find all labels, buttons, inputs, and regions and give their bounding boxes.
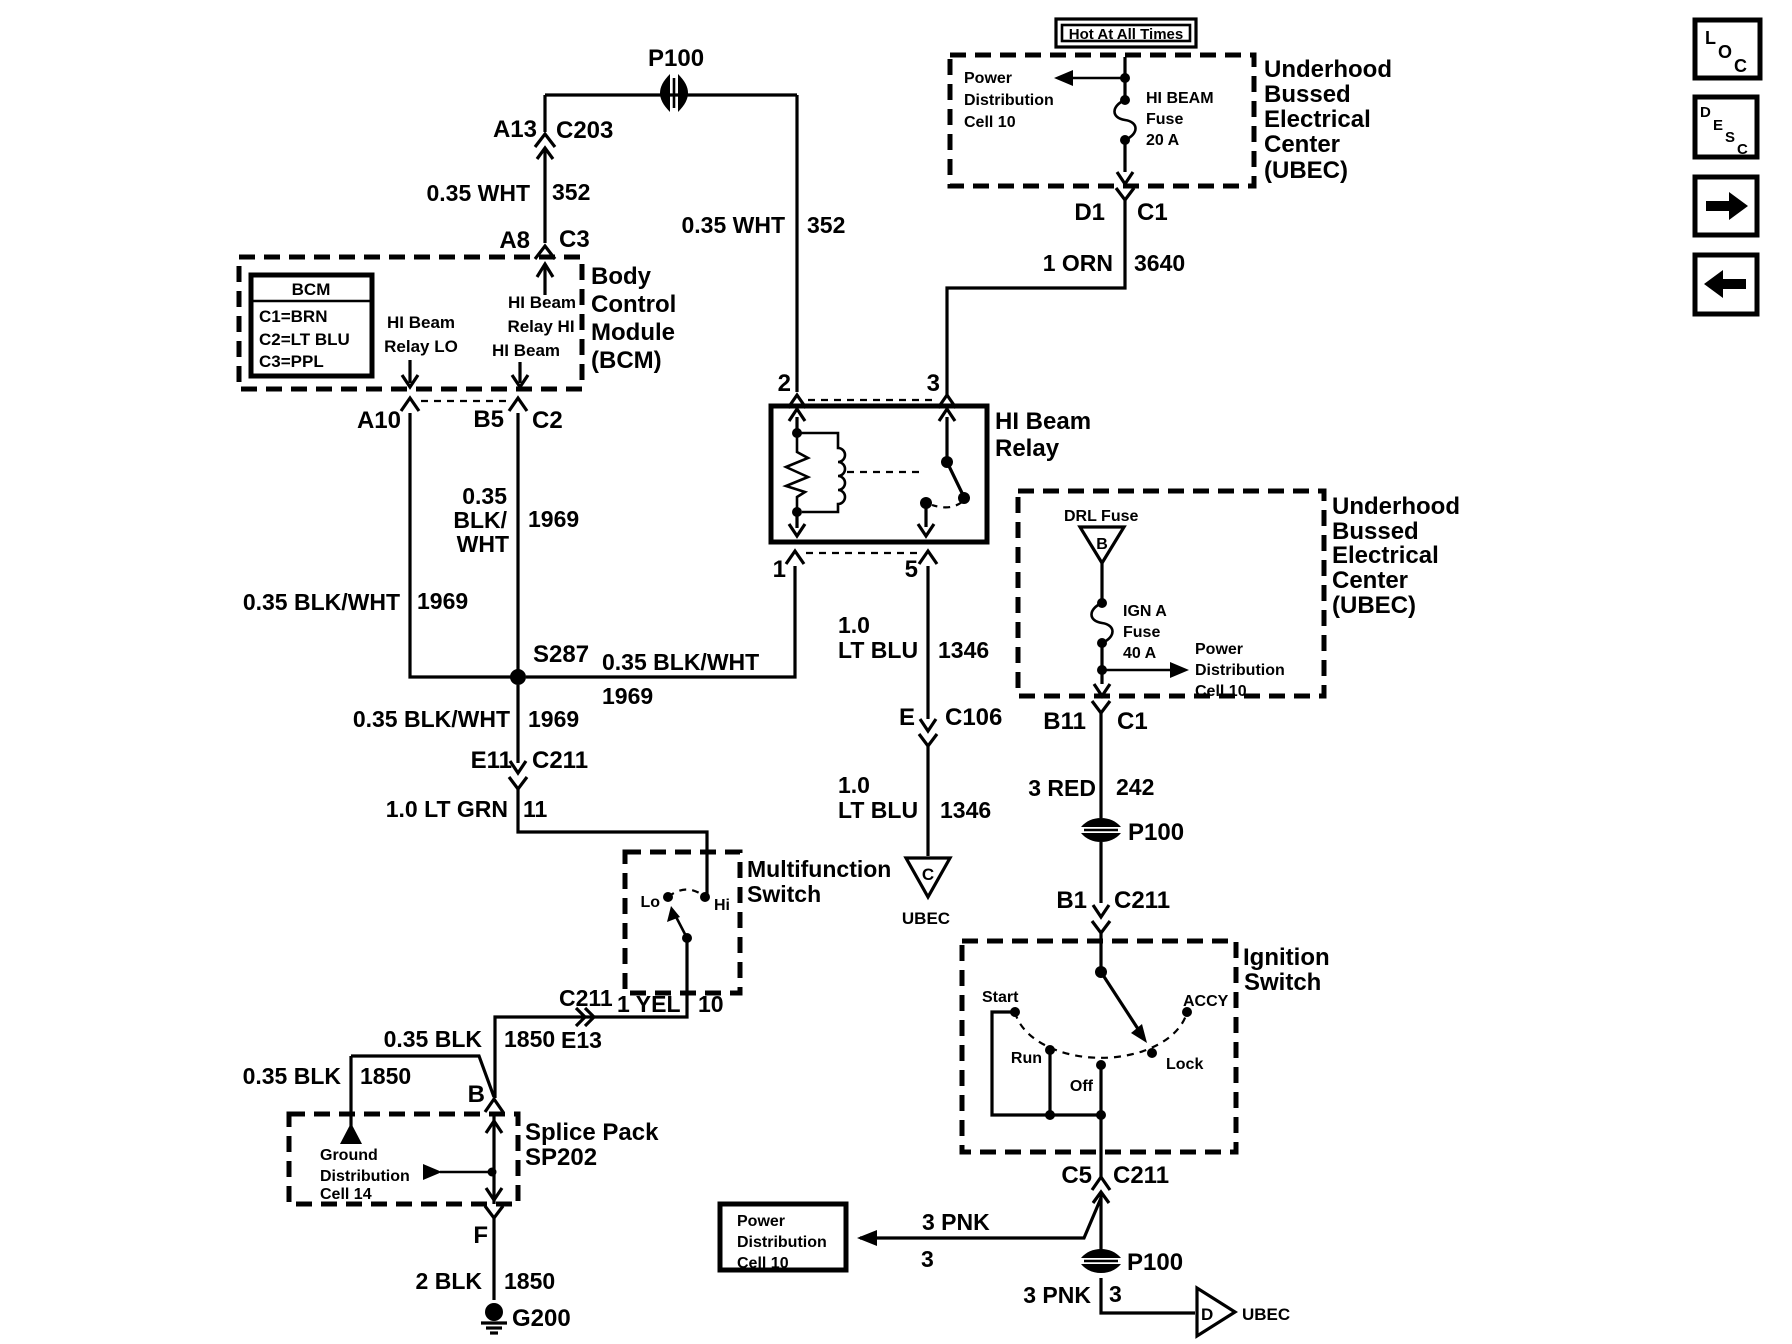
svg-text:Underhood: Underhood	[1332, 493, 1460, 520]
svg-text:Power: Power	[737, 1213, 785, 1230]
label HI Beam Relay LO	[384, 313, 458, 356]
relay coil branch bottom node	[792, 507, 802, 517]
svg-text:11: 11	[523, 796, 548, 822]
svg-text:Underhood: Underhood	[1264, 56, 1392, 83]
svg-text:P100: P100	[1128, 819, 1184, 846]
label DRL Fuse	[1064, 508, 1138, 525]
arrow down exiting splice pack	[486, 1188, 502, 1200]
label Ground Distribution Cell 14	[320, 1147, 410, 1203]
wire ignition output	[1099, 1115, 1102, 1177]
wire 3 PNK 3 to UBEC	[1023, 1278, 1195, 1313]
svg-text:Fuse: Fuse	[1146, 111, 1183, 128]
Splice Pack SP202 dashed outline	[289, 1114, 518, 1204]
arrow to power distribution cell 10 (lower UBEC)	[1102, 662, 1189, 678]
svg-text:3: 3	[927, 370, 940, 397]
svg-text:Cell 10: Cell 10	[737, 1255, 789, 1272]
svg-text:LT BLU: LT BLU	[838, 637, 918, 663]
off-page reference triangle C to UBEC	[902, 858, 950, 928]
svg-text:10: 10	[698, 991, 724, 1017]
ground distribution feed triangle	[340, 1123, 362, 1144]
svg-text:Electrical: Electrical	[1264, 106, 1371, 133]
svg-text:Splice Pack: Splice Pack	[525, 1119, 659, 1146]
Multifunction Switch dashed outline	[625, 852, 740, 993]
svg-text:E13: E13	[561, 1027, 602, 1053]
wire top rail from C203 to HI Beam Relay pin 2	[545, 93, 797, 96]
svg-text:A10: A10	[357, 407, 401, 434]
svg-text:Module: Module	[591, 319, 675, 346]
svg-text:C203: C203	[556, 117, 613, 144]
Power Distribution Cell 10 box	[720, 1204, 846, 1272]
svg-text:UBEC: UBEC	[902, 909, 950, 928]
UBEC lower dashed outline	[1018, 491, 1324, 696]
wire Run to output bus	[1045, 1050, 1055, 1120]
svg-text:0.35 BLK: 0.35 BLK	[243, 1063, 342, 1089]
svg-text:242: 242	[1116, 774, 1154, 800]
svg-text:Body: Body	[591, 263, 652, 290]
svg-text:WHT: WHT	[457, 531, 509, 557]
connector pin B of splice pack	[468, 1081, 503, 1112]
svg-text:E: E	[1713, 117, 1723, 134]
HI Beam Relay box	[771, 406, 987, 542]
svg-text:Control: Control	[591, 291, 676, 318]
wire S287 to relay pin 1, 0.35 BLK/WHT 1969	[526, 566, 795, 709]
wire 1 ORN 3640 to relay pin 3	[947, 200, 1185, 395]
svg-text:Electrical: Electrical	[1332, 542, 1439, 569]
contact Hi	[700, 892, 730, 914]
svg-text:Power: Power	[1195, 641, 1243, 658]
svg-text:3 RED: 3 RED	[1028, 775, 1096, 801]
svg-text:2 BLK: 2 BLK	[416, 1268, 483, 1294]
svg-text:0.35 BLK: 0.35 BLK	[384, 1026, 483, 1052]
connector P100 (inline pass-through, top)	[648, 45, 704, 112]
svg-text:B: B	[1096, 536, 1108, 553]
arrow into BCM pin A8	[537, 264, 553, 295]
svg-text:LT BLU: LT BLU	[838, 797, 918, 823]
label Underhood Bussed Electrical Center (UBEC) upper	[1264, 56, 1392, 184]
svg-text:Switch: Switch	[747, 881, 821, 907]
svg-text:3640: 3640	[1134, 250, 1185, 276]
svg-text:Cell 10: Cell 10	[964, 114, 1016, 131]
svg-text:L: L	[1705, 28, 1716, 48]
label HI Beam Relay	[995, 408, 1091, 462]
label Underhood Bussed Electrical Center (UBEC) lower	[1332, 493, 1460, 619]
svg-text:Center: Center	[1332, 567, 1408, 594]
svg-text:C211: C211	[1113, 1162, 1169, 1189]
ignition switch pivot and blade	[1095, 966, 1147, 1043]
svg-text:E: E	[899, 704, 915, 731]
relay coil branch arrow up	[789, 409, 805, 430]
svg-text:Distribution: Distribution	[1195, 662, 1285, 679]
svg-text:C: C	[922, 865, 934, 884]
next page arrow box	[1695, 177, 1757, 235]
svg-text:C2=LT BLU: C2=LT BLU	[259, 330, 350, 349]
wire S287 down 0.35 BLK/WHT 1969	[353, 685, 579, 757]
svg-text:Distribution: Distribution	[964, 92, 1054, 109]
svg-text:(UBEC): (UBEC)	[1332, 592, 1416, 619]
svg-text:C: C	[1734, 56, 1747, 76]
dashed throw arc Lo-Hi	[668, 890, 705, 898]
svg-text:5: 5	[905, 556, 918, 583]
wire C5 to P100	[1099, 1194, 1102, 1250]
svg-text:B11: B11	[1043, 708, 1086, 735]
svg-text:D: D	[1700, 104, 1711, 121]
svg-text:Off: Off	[1070, 1078, 1094, 1095]
svg-text:Center: Center	[1264, 131, 1340, 158]
svg-text:Relay HI: Relay HI	[507, 317, 574, 336]
Ignition Switch dashed outline	[962, 941, 1236, 1152]
svg-text:S287: S287	[533, 641, 589, 668]
svg-text:Fuse: Fuse	[1123, 624, 1160, 641]
wire B5 0.35 BLK/WHT 1969	[453, 413, 579, 670]
svg-text:40 A: 40 A	[1123, 645, 1157, 662]
svg-text:O: O	[1718, 42, 1732, 62]
svg-text:3 PNK: 3 PNK	[1023, 1282, 1091, 1308]
contact Run	[1011, 1045, 1055, 1067]
wire 0.35 WHT 352 (P100 to relay pin 2)	[681, 95, 845, 392]
svg-text:C106: C106	[945, 704, 1002, 731]
svg-text:1346: 1346	[938, 637, 989, 663]
connector C211 pin C5	[1061, 1162, 1169, 1203]
wire left branch 0.35 BLK 1850 to ground distribution	[243, 1056, 494, 1126]
label Splice Pack SP202	[525, 1119, 659, 1171]
svg-text:Run: Run	[1011, 1050, 1042, 1067]
relay coil branch arrow down	[789, 512, 805, 536]
svg-text:DRL Fuse: DRL Fuse	[1064, 508, 1138, 525]
svg-text:0.35 BLK/WHT: 0.35 BLK/WHT	[602, 649, 759, 675]
svg-text:Ignition: Ignition	[1243, 944, 1330, 971]
svg-text:B1: B1	[1056, 887, 1087, 914]
relay pin 2	[778, 370, 806, 408]
relay switch arm arrow up	[939, 409, 955, 430]
switch blade pointing at Lo	[667, 906, 692, 943]
svg-text:Start: Start	[982, 989, 1019, 1006]
arrow BCM output A10	[402, 360, 418, 387]
connector C211 (double chevron)	[559, 985, 613, 1026]
output bus node	[1096, 1110, 1106, 1120]
connector C2 pin B5	[473, 398, 562, 434]
svg-text:Multifunction: Multifunction	[747, 856, 891, 882]
HI BEAM Fuse 20 A	[1115, 90, 1214, 149]
svg-text:IGN A: IGN A	[1123, 603, 1167, 620]
svg-text:3: 3	[921, 1246, 934, 1272]
wire hot feed into fuse	[1123, 57, 1126, 97]
svg-text:C3=PPL: C3=PPL	[259, 352, 324, 371]
relay pin 1	[773, 551, 804, 583]
svg-text:Distribution: Distribution	[737, 1234, 827, 1251]
arrow up inside splice pack	[486, 1121, 502, 1133]
svg-text:D: D	[1201, 1305, 1213, 1324]
label Power Distribution Cell 10 (upper UBEC)	[964, 70, 1054, 131]
relay pin 5	[905, 551, 937, 583]
BCM dashed outline	[239, 257, 582, 389]
splice pack bus wire	[492, 1112, 495, 1204]
connector P100 (inline pass-through, middle)	[1081, 818, 1184, 846]
svg-text:3 PNK: 3 PNK	[922, 1209, 990, 1235]
wire drop to C203	[543, 95, 546, 132]
svg-text:C5: C5	[1061, 1162, 1092, 1189]
contact ACCY	[1182, 993, 1229, 1017]
svg-text:352: 352	[807, 212, 845, 238]
svg-text:SP202: SP202	[525, 1144, 597, 1171]
svg-text:P100: P100	[1127, 1249, 1183, 1276]
wire into ignition switch	[1099, 933, 1102, 972]
svg-text:0.35 WHT: 0.35 WHT	[681, 212, 785, 238]
svg-text:0.35: 0.35	[462, 483, 507, 509]
svg-text:Lo: Lo	[640, 894, 660, 911]
relay output contact	[918, 497, 934, 536]
svg-text:A13: A13	[493, 116, 537, 143]
svg-text:1969: 1969	[528, 506, 579, 532]
svg-text:Cell 14: Cell 14	[320, 1186, 372, 1203]
svg-text:A8: A8	[499, 227, 530, 254]
svg-text:20 A: 20 A	[1146, 132, 1180, 149]
BCM connector color table	[251, 275, 372, 376]
svg-text:P100: P100	[648, 45, 704, 72]
svg-text:(BCM): (BCM)	[591, 347, 662, 374]
connector C211 pin E11	[471, 747, 588, 789]
relay coil branch top node	[792, 428, 802, 438]
svg-text:E11: E11	[471, 747, 512, 774]
svg-text:1346: 1346	[940, 797, 991, 823]
UBEC upper dashed outline	[950, 55, 1254, 186]
svg-text:F: F	[473, 1222, 488, 1249]
svg-text:C: C	[1737, 141, 1748, 158]
svg-text:1.0: 1.0	[838, 612, 870, 638]
svg-text:C211: C211	[532, 747, 588, 774]
connector C211 pin B1	[1056, 887, 1170, 933]
svg-text:(UBEC): (UBEC)	[1264, 157, 1348, 184]
label Body Control Module (BCM)	[591, 263, 676, 374]
svg-text:0.35 WHT: 0.35 WHT	[426, 180, 530, 206]
svg-text:Relay LO: Relay LO	[384, 337, 458, 356]
svg-text:HI BEAM: HI BEAM	[1146, 90, 1214, 107]
svg-text:B: B	[468, 1081, 485, 1108]
previous page arrow box	[1695, 255, 1757, 314]
svg-text:352: 352	[552, 179, 590, 205]
svg-text:Bussed: Bussed	[1264, 81, 1351, 108]
label Power Distribution Cell 10 (lower UBEC)	[1195, 641, 1285, 700]
wire 2 BLK 1850 to G200	[416, 1218, 556, 1300]
wire P100 to C211	[1099, 842, 1102, 903]
svg-text:ACCY: ACCY	[1183, 993, 1229, 1010]
wire branch 3 PNK 3 to power distribution	[857, 1198, 1101, 1272]
DESC navigation box	[1695, 97, 1757, 158]
connector C106 pin E	[899, 700, 1002, 746]
svg-text:C1=BRN: C1=BRN	[259, 307, 328, 326]
svg-text:D1: D1	[1074, 199, 1105, 226]
relay resistor	[786, 433, 808, 509]
svg-text:Relay: Relay	[995, 435, 1060, 462]
svg-text:C1: C1	[1117, 708, 1148, 735]
relay switch pivot and blade	[941, 430, 970, 504]
wire relay pin 5, 1.0 LT BLU 1346	[838, 566, 989, 700]
connector C1 pin B11	[1043, 701, 1147, 735]
ground G200	[481, 1303, 571, 1333]
wire Start to output bus	[992, 1012, 1101, 1115]
svg-text:HI Beam: HI Beam	[508, 293, 576, 312]
svg-text:S: S	[1725, 129, 1735, 146]
svg-text:3: 3	[1109, 1281, 1122, 1307]
wire multifunction pin 10, 1 YEL	[495, 938, 724, 1098]
arrow down exiting UBEC	[1094, 684, 1110, 696]
connector P100 (inline pass-through, bottom)	[1081, 1249, 1183, 1276]
dashed connector link pins 2-3	[808, 399, 936, 401]
svg-text:C211: C211	[1114, 887, 1170, 914]
svg-text:1.0: 1.0	[838, 772, 870, 798]
IGN A Fuse 40 A	[1092, 598, 1168, 662]
svg-text:Hot At All Times: Hot At All Times	[1069, 26, 1183, 43]
wire 1.0 LT BLU 1346 to UBEC	[838, 746, 991, 856]
contact Start	[982, 989, 1020, 1017]
svg-text:C3: C3	[559, 226, 590, 253]
svg-text:1969: 1969	[528, 706, 579, 732]
svg-text:1850: 1850	[504, 1268, 555, 1294]
relay actuation dashed link	[847, 471, 925, 473]
connector dashed link A10-B5	[421, 400, 508, 402]
contact Off	[1070, 1060, 1106, 1115]
wire triangle B to IGN A fuse	[1100, 563, 1103, 600]
arrow to power distribution cell 10	[1054, 70, 1130, 86]
svg-text:0.35 BLK/WHT: 0.35 BLK/WHT	[353, 706, 510, 732]
wire A10 0.35 BLK/WHT 1969	[243, 413, 513, 677]
svg-text:Hi: Hi	[714, 897, 730, 914]
LOC navigation box	[1695, 20, 1760, 78]
svg-text:Switch: Switch	[1244, 969, 1321, 996]
svg-text:C2: C2	[532, 407, 563, 434]
connector C3 pin A8	[499, 226, 589, 259]
svg-text:1850: 1850	[360, 1063, 411, 1089]
connector C203 pin A13	[493, 116, 613, 159]
svg-text:1850: 1850	[504, 1026, 555, 1052]
svg-text:Power: Power	[964, 70, 1012, 87]
svg-text:0.35 BLK/WHT: 0.35 BLK/WHT	[243, 589, 400, 615]
svg-text:1 YEL: 1 YEL	[617, 991, 681, 1017]
DRL fuse feed triangle B	[1080, 527, 1124, 563]
relay coil	[797, 433, 845, 512]
svg-text:C211: C211	[559, 985, 613, 1011]
connector C2 pin A10	[357, 398, 419, 434]
label Multifunction Switch	[747, 856, 891, 907]
svg-text:Cell 10: Cell 10	[1195, 683, 1247, 700]
connector pin F	[473, 1206, 503, 1249]
wire fuse output node	[1097, 643, 1107, 684]
svg-text:BCM: BCM	[292, 280, 331, 299]
svg-text:2: 2	[778, 370, 791, 397]
svg-text:HI Beam: HI Beam	[492, 341, 560, 360]
svg-text:Bussed: Bussed	[1332, 518, 1419, 545]
wire 1.0 LT GRN 11 to multifunction switch	[386, 789, 707, 896]
wire fuse output with arrow	[1117, 140, 1133, 184]
svg-text:1 ORN: 1 ORN	[1043, 250, 1113, 276]
svg-text:1: 1	[773, 556, 786, 583]
label Ignition Switch	[1243, 944, 1330, 996]
Hot At All Times box	[1056, 19, 1196, 47]
wire labels 0.35 BLK 1850 E13	[384, 1026, 602, 1053]
splice S287	[510, 641, 589, 685]
svg-text:BLK/: BLK/	[453, 507, 507, 533]
contact Lo	[640, 892, 673, 911]
svg-text:1969: 1969	[417, 588, 468, 614]
svg-text:1969: 1969	[602, 683, 653, 709]
svg-text:HI Beam: HI Beam	[387, 313, 455, 332]
off-page reference triangle D to UBEC	[1197, 1288, 1290, 1336]
wire 3 RED 242	[1028, 713, 1154, 818]
svg-text:UBEC: UBEC	[1242, 1305, 1290, 1324]
svg-text:1.0 LT GRN: 1.0 LT GRN	[386, 796, 508, 822]
dashed detent arc	[1015, 1012, 1187, 1058]
wire 0.35 WHT 352 (A13 to A8)	[426, 150, 590, 243]
arrow BCM output B5	[512, 362, 528, 387]
relay pin 3	[927, 370, 956, 408]
svg-text:B5: B5	[473, 406, 504, 433]
contact Lock	[1147, 1048, 1203, 1073]
label HI Beam Relay HI / HI Beam	[492, 293, 576, 360]
svg-text:Lock: Lock	[1166, 1056, 1203, 1073]
connector C1 pin D1	[1074, 188, 1167, 226]
svg-text:Ground: Ground	[320, 1147, 378, 1164]
svg-text:G200: G200	[512, 1305, 571, 1332]
relay switch dashed throw arc	[932, 502, 962, 507]
dashed connector link pins 1-5	[806, 552, 917, 554]
ground distribution cell 14 feed arrow	[423, 1164, 497, 1180]
svg-text:C1: C1	[1137, 199, 1168, 226]
svg-text:HI Beam: HI Beam	[995, 408, 1091, 435]
svg-text:Distribution: Distribution	[320, 1168, 410, 1185]
